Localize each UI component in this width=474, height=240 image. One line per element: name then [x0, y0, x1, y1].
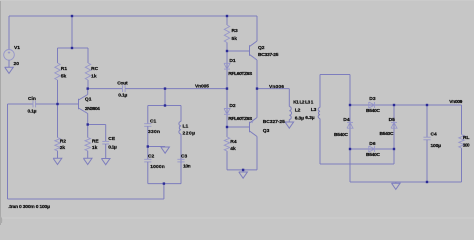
svg-text:B540C: B540C [380, 131, 394, 137]
svg-text:1k: 1k [91, 74, 97, 80]
svg-text:5k: 5k [61, 74, 67, 80]
svg-text:D4: D4 [343, 117, 350, 123]
svg-text:C4: C4 [431, 132, 438, 138]
svg-text:D1: D1 [229, 58, 236, 64]
svg-text:0.1µ: 0.1µ [108, 145, 117, 151]
svg-text:RFL60TZ6S: RFL60TZ6S [228, 71, 253, 77]
svg-text:330n: 330n [148, 129, 160, 135]
svg-text:6.3µ: 6.3µ [295, 116, 304, 122]
svg-text:BC337-25: BC337-25 [258, 52, 279, 58]
svg-text:V1: V1 [14, 45, 20, 51]
svg-text:R1: R1 [61, 66, 68, 72]
svg-text:D2: D2 [229, 103, 236, 109]
svg-text:CE: CE [108, 136, 116, 142]
svg-text:6.3µ: 6.3µ [305, 115, 314, 121]
svg-text:C1: C1 [150, 118, 157, 124]
svg-text:20: 20 [14, 61, 20, 67]
svg-text:RE: RE [92, 139, 100, 145]
svg-text:Q1: Q1 [85, 96, 92, 102]
svg-text:2N3904: 2N3904 [85, 106, 100, 112]
svg-text:Vn005: Vn005 [195, 84, 209, 90]
svg-text:0.1µ: 0.1µ [28, 109, 37, 115]
svg-text:R3: R3 [232, 28, 239, 34]
svg-text:Cin: Cin [28, 96, 36, 102]
svg-text:K1 L2 L3 1: K1 L2 L3 1 [293, 100, 313, 105]
svg-text:D6: D6 [369, 141, 376, 147]
svg-text:1k: 1k [92, 145, 98, 151]
svg-text:RFL60TZ6S: RFL60TZ6S [228, 116, 253, 122]
svg-text:B540C: B540C [366, 152, 380, 158]
svg-text:C3: C3 [181, 153, 188, 159]
svg-text:220µ: 220µ [183, 130, 196, 136]
svg-text:D3: D3 [369, 96, 376, 102]
svg-text:RL: RL [463, 135, 470, 141]
svg-text:L3: L3 [311, 107, 317, 113]
svg-text:Vn006: Vn006 [269, 84, 284, 90]
svg-text:2k: 2k [60, 145, 66, 151]
svg-text:1000n: 1000n [150, 164, 165, 170]
svg-text:100µ: 100µ [431, 143, 442, 149]
svg-text:Vn009: Vn009 [449, 99, 462, 105]
svg-text:5k: 5k [232, 36, 238, 42]
svg-text:.tran 0 300m 0 100µ: .tran 0 300m 0 100µ [8, 204, 50, 210]
svg-text:Cout: Cout [117, 80, 128, 86]
svg-text:D5: D5 [389, 117, 396, 123]
svg-text:L1: L1 [183, 124, 189, 130]
svg-text:Q3: Q3 [263, 128, 270, 134]
svg-text:RC: RC [91, 66, 99, 72]
svg-text:C2: C2 [148, 153, 155, 159]
svg-text:Q2: Q2 [258, 45, 265, 51]
svg-text:R4: R4 [230, 139, 237, 145]
svg-text:BC327-25: BC327-25 [263, 119, 285, 125]
svg-text:B540C: B540C [334, 132, 348, 138]
svg-text:B540C: B540C [366, 108, 380, 114]
svg-text:R2: R2 [60, 139, 67, 145]
svg-text:L2: L2 [295, 108, 301, 114]
svg-text:10n: 10n [183, 164, 191, 170]
svg-text:100: 100 [463, 142, 470, 148]
svg-text:0.1µ: 0.1µ [118, 93, 127, 99]
svg-text:4k: 4k [230, 146, 236, 152]
